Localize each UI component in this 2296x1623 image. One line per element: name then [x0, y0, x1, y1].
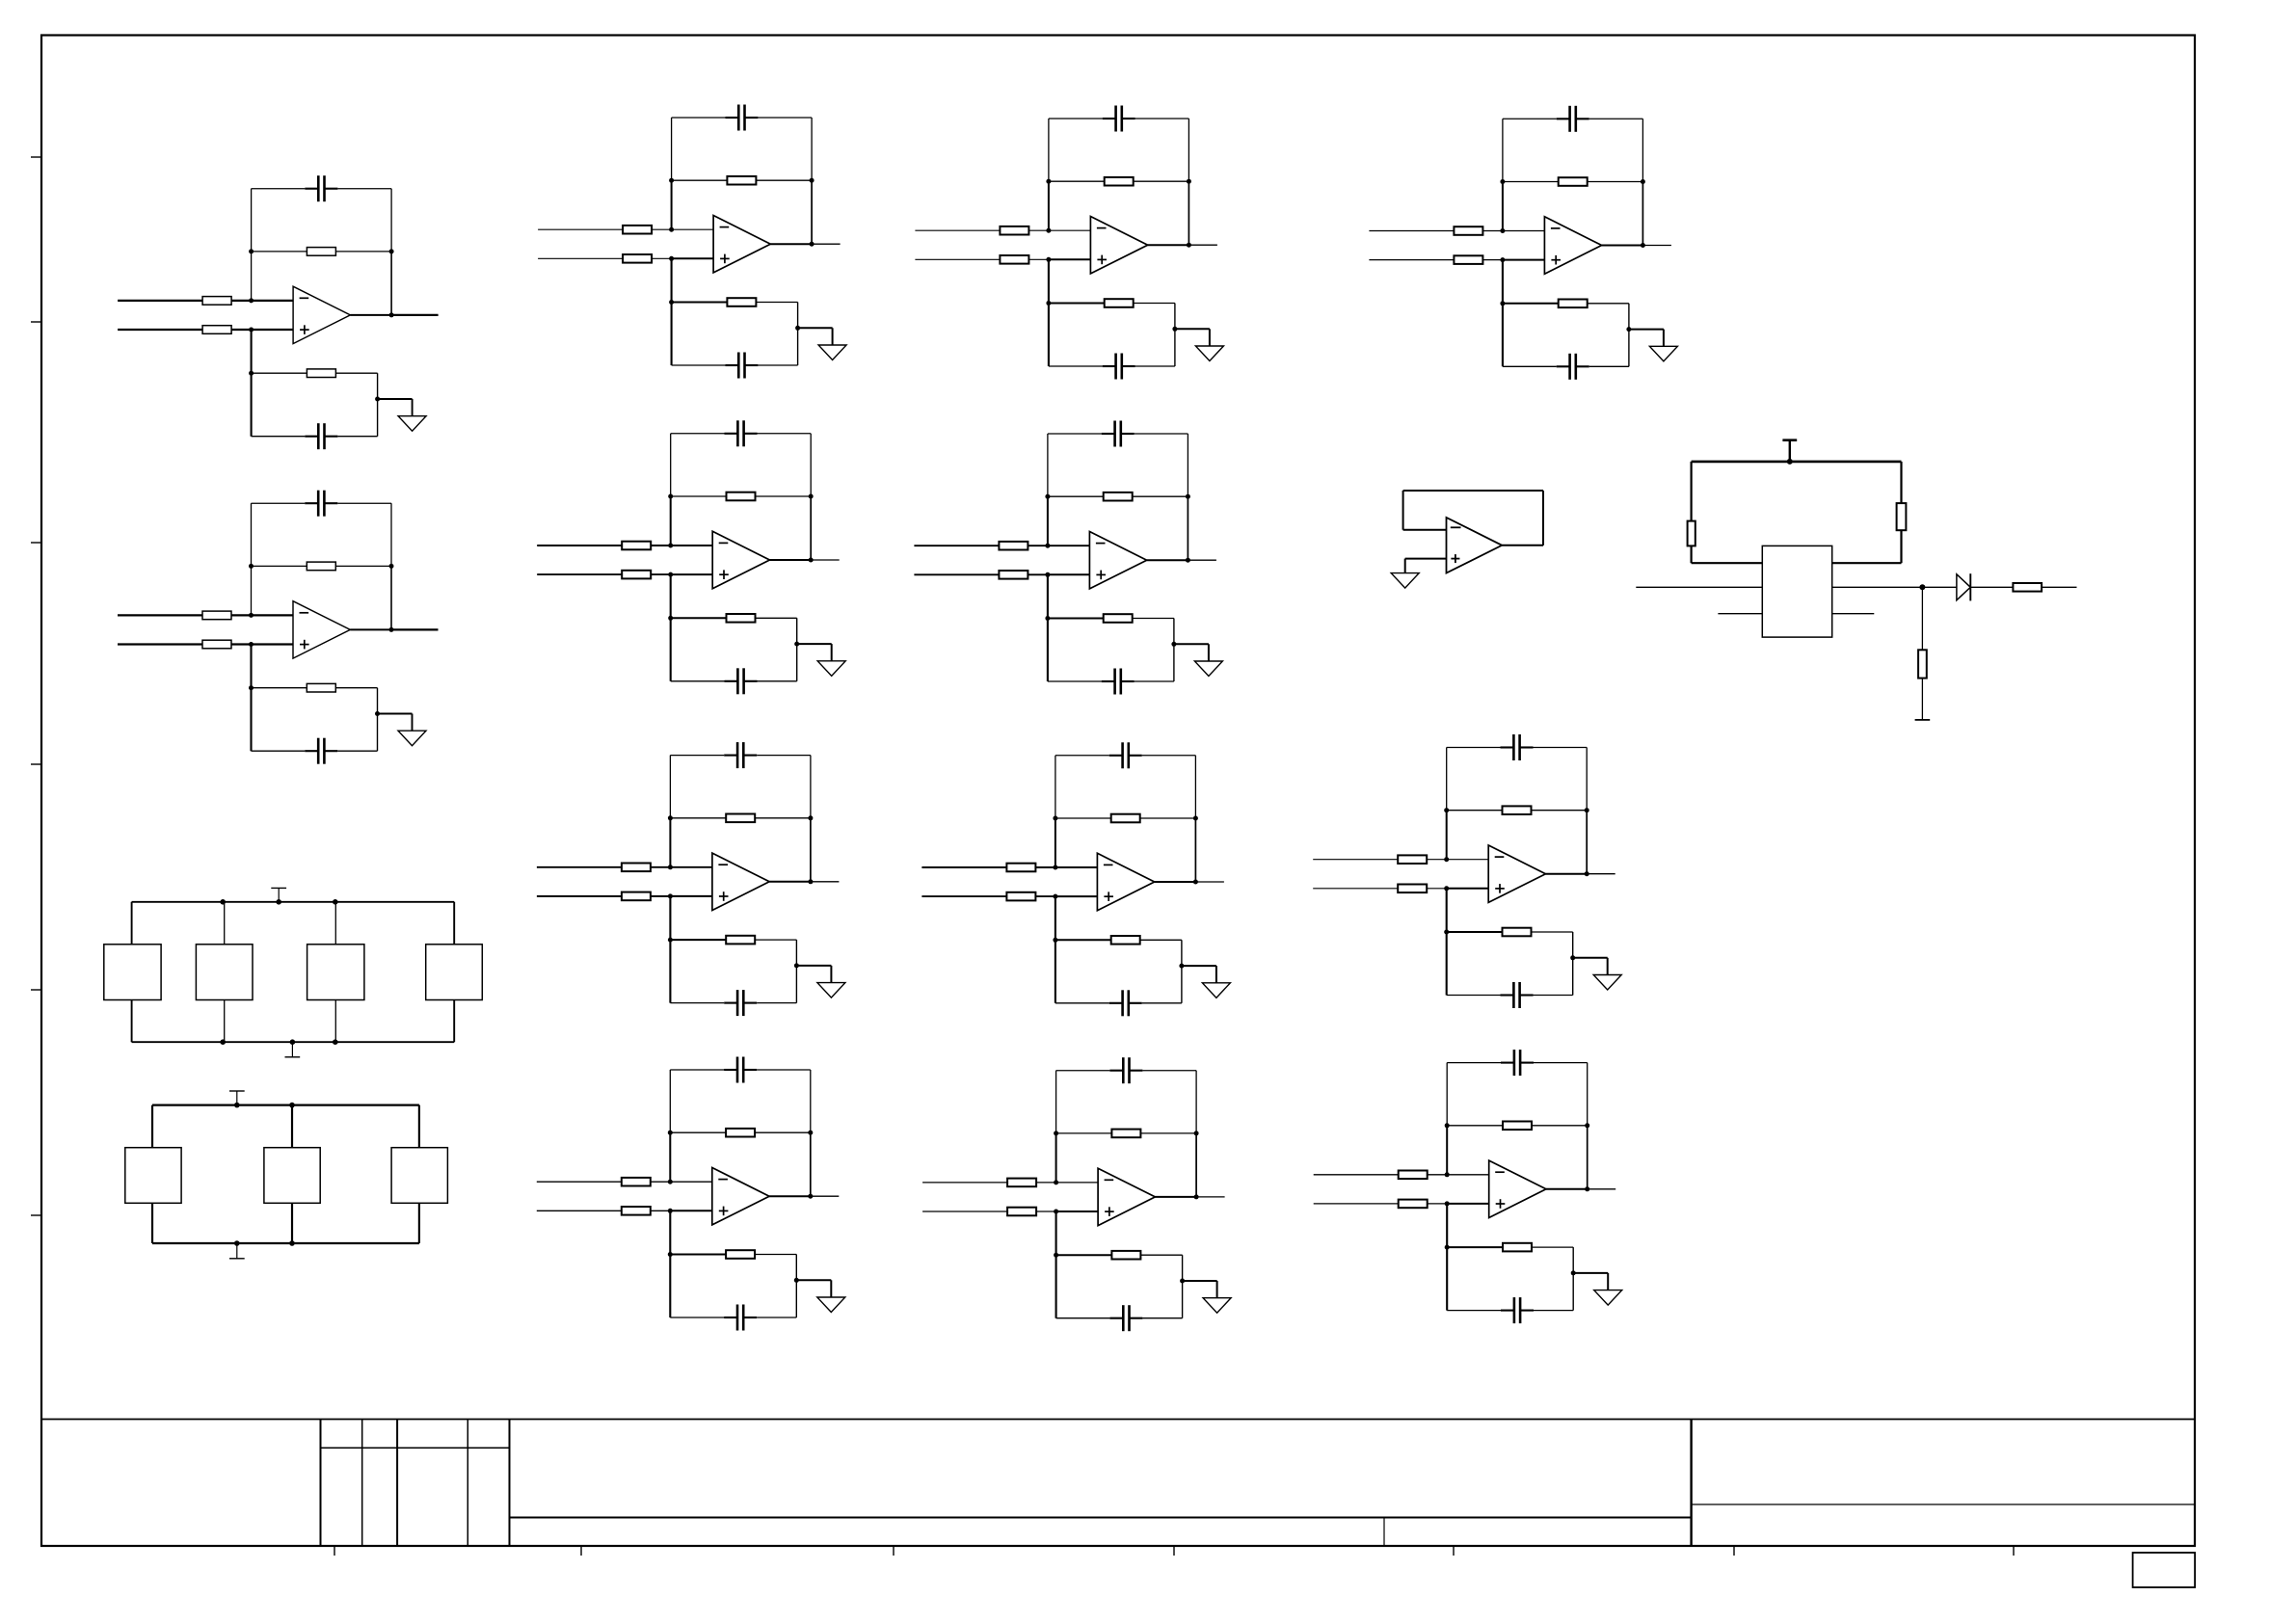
node pack1 bottom bus: [220, 1039, 226, 1045]
node U2 non-inverting input: [249, 642, 254, 647]
resistor U1 non-inverting input: [202, 326, 231, 334]
wire U1 rc top: [252, 372, 307, 374]
resistor U10 inverting input: [1007, 1179, 1036, 1187]
resistor U12 feedback: [1503, 806, 1532, 814]
op-amp U13: [1489, 1160, 1546, 1217]
wire U5 feedback top: [670, 755, 724, 757]
node U7 feedback left: [1046, 179, 1051, 184]
resistor U5 feedback: [726, 814, 755, 823]
wire U4 ground stub: [797, 643, 832, 645]
capacitor U3 feedback: [725, 117, 738, 119]
capacitor U13 feedback: [1501, 1062, 1514, 1064]
ground U3: [818, 345, 846, 360]
node U3 ground stub: [795, 326, 800, 331]
node U3 feedback right: [810, 178, 814, 183]
ground U14: [1391, 573, 1419, 589]
node U2 feedback left: [249, 564, 254, 569]
wire U14 feedback loop: [1502, 545, 1543, 546]
node U9 non-inverting input: [1053, 894, 1057, 899]
wire U9 feedback top: [1055, 755, 1109, 757]
node U4 output: [809, 558, 814, 563]
wire pack1 cell3 stubs: [334, 902, 336, 945]
diode D1: [1957, 574, 1970, 600]
wire U2 ground-leg vertical: [250, 645, 252, 752]
wire U9 ground-leg vertical: [1055, 896, 1056, 1003]
wire U13 feedback resistor row: [1447, 1125, 1588, 1127]
resistor U2 feedback: [307, 562, 335, 571]
wire U4 feedback resistor row: [671, 495, 812, 497]
capacitor U7 ground network: [1103, 365, 1116, 367]
capacitor U8 ground network: [1102, 680, 1115, 682]
wire U10 ground stub: [1183, 1280, 1217, 1282]
wire U10 feedback resistor row: [1056, 1132, 1197, 1134]
wire U11 inverting input: [1369, 230, 1503, 232]
node U5 inverting input: [668, 865, 673, 869]
wire U3 ground-leg vertical: [671, 258, 673, 365]
resistor U3 inverting input: [623, 226, 652, 234]
wire U2 output: [350, 628, 391, 630]
wire U13 ground stub: [1573, 1272, 1608, 1274]
resistor U13 ground network: [1503, 1243, 1532, 1252]
wire U11 ground-leg vertical: [1502, 260, 1504, 367]
wire U2 inverting input: [118, 614, 252, 616]
wire pack1 top bus: [132, 901, 455, 903]
block pack1 cell3: [307, 945, 364, 1000]
wire U1 inverting input: [118, 300, 252, 302]
power symbol VR1: [1789, 440, 1791, 462]
wire U3 rc top: [672, 302, 728, 304]
capacitor U1 feedback: [305, 188, 318, 190]
node U1 rc top left: [249, 371, 254, 376]
wire U12 inverting input: [1313, 859, 1447, 861]
resistor U10 feedback: [1111, 1130, 1140, 1138]
wire U1 feedback left vertical: [251, 189, 253, 252]
wire U7 rc top: [1049, 303, 1105, 305]
op-amp U5: [712, 853, 769, 910]
node U5 non-inverting input: [668, 893, 673, 898]
resistor U3 feedback: [727, 176, 756, 185]
node U5 output: [808, 879, 813, 884]
resistor U2 ground network: [307, 683, 335, 692]
capacitor U8 feedback: [1102, 433, 1115, 435]
wire U6 feedback left vertical: [669, 1070, 671, 1132]
op-amp U2: [293, 601, 350, 658]
wire U10 rc top: [1056, 1254, 1112, 1256]
wire U7 inverting input: [915, 229, 1049, 231]
wire U4 output: [770, 559, 812, 561]
wire U6 ground stub: [796, 1279, 831, 1281]
wire U4 non-inverting input: [537, 573, 671, 575]
node U3 rc top left: [669, 300, 674, 305]
wire U7 output: [1148, 244, 1189, 246]
regulator VR1: [1762, 545, 1831, 637]
wire below R_div: [1921, 678, 1923, 720]
wire U12 ground stub: [1573, 957, 1608, 959]
ground U10: [1203, 1298, 1231, 1314]
node U8 ground stub: [1171, 642, 1176, 647]
wire U1 feedback resistor row: [252, 251, 392, 253]
wire VR1 input: [1636, 586, 1762, 588]
wire U11 feedback top: [1503, 118, 1557, 120]
resistor U11 feedback: [1559, 177, 1588, 186]
capacitor U11 feedback: [1557, 118, 1570, 120]
wire U5 inverting input: [537, 866, 671, 868]
node U1 inverting input: [249, 298, 254, 303]
title block right field line: [1692, 1503, 2195, 1505]
wire U12 feedback top: [1447, 747, 1501, 749]
wire U9 feedback left vertical: [1055, 756, 1056, 818]
block pack1 cell1: [104, 945, 161, 1000]
wire U7 feedback resistor row: [1049, 180, 1189, 182]
wire U1 ground-leg vertical: [251, 330, 253, 437]
title block divider: [1690, 1420, 1692, 1547]
resistor U6 ground network: [726, 1250, 755, 1259]
wire R_out right: [2042, 586, 2076, 588]
node U10 output: [1194, 1194, 1199, 1199]
node U4 ground stub: [794, 642, 799, 647]
wire U9 feedback resistor row: [1055, 817, 1196, 819]
node U6 inverting input: [668, 1180, 673, 1184]
wire U2 feedback top: [252, 502, 306, 504]
node pack1 top bus: [220, 899, 226, 905]
resistor U12 non-inverting input: [1398, 885, 1427, 893]
wire U10 feedback left vertical: [1055, 1071, 1057, 1133]
node U3 non-inverting input: [669, 256, 674, 261]
wire U4 feedback top: [671, 433, 725, 435]
wire U7 rc right vertical: [1174, 304, 1176, 367]
node U9 ground stub: [1179, 964, 1184, 969]
wire U5 feedback right vertical: [810, 756, 812, 818]
wire U8 non-inverting input: [914, 573, 1048, 575]
node U1 non-inverting input: [249, 328, 254, 333]
title block table verticals: [320, 1420, 322, 1547]
node U3 inverting input: [669, 227, 674, 232]
wire U9 rc top: [1055, 939, 1111, 941]
capacitor U12 ground network: [1501, 994, 1514, 996]
wire U8 inverting input: [914, 545, 1048, 546]
node U1 feedback left: [249, 249, 254, 253]
wire U4 inverting input: [537, 545, 671, 546]
wire U12 feedback left vertical: [1446, 748, 1448, 811]
op-amp U10: [1098, 1168, 1155, 1225]
resistor U7 ground network: [1105, 299, 1134, 307]
resistor U11 non-inverting input: [1454, 255, 1482, 264]
wire U9 ground stub: [1182, 965, 1216, 967]
wire U8 feedback resistor row: [1048, 495, 1188, 497]
ground U8: [1194, 661, 1222, 677]
wire U10 non-inverting input: [922, 1211, 1056, 1212]
ground U12: [1593, 975, 1621, 991]
wire U5 non-inverting input: [537, 895, 671, 897]
resistor U8 non-inverting input: [999, 571, 1028, 579]
wire U2 feedback left vertical: [251, 503, 253, 566]
wire U12 non-inverting input: [1313, 888, 1447, 890]
node U3 feedback left: [669, 178, 674, 183]
node U3 output: [810, 242, 814, 247]
resistor U7 non-inverting input: [1000, 255, 1028, 264]
wire U11 ground stub: [1629, 329, 1664, 331]
wire U13 ground-leg vertical: [1446, 1204, 1448, 1311]
resistor U4 non-inverting input: [622, 571, 651, 579]
node U8 feedback left: [1045, 494, 1050, 499]
node U13 inverting input: [1445, 1172, 1450, 1177]
block pack2 cell3: [391, 1148, 447, 1204]
resistor U11 inverting input: [1454, 226, 1482, 235]
capacitor U2 feedback: [305, 502, 318, 504]
node U11 non-inverting input: [1500, 257, 1505, 262]
node pack2 bottom bus: [234, 1240, 240, 1246]
resistor U2 inverting input: [202, 611, 231, 620]
node U7 inverting input: [1046, 228, 1051, 233]
capacitor U10 feedback: [1109, 1070, 1123, 1072]
node U2 rc top left: [249, 685, 254, 690]
node U9 inverting input: [1053, 865, 1057, 870]
wire U2 feedback right vertical: [390, 503, 392, 566]
wire U2 ground stub: [378, 713, 413, 715]
wire U7 non-inverting input: [915, 258, 1049, 260]
node U8 inverting input: [1045, 544, 1050, 548]
node U6 feedback right: [808, 1131, 813, 1135]
resistor U12 inverting input: [1398, 855, 1427, 864]
wire VR1 left branch: [1690, 462, 1692, 521]
node U4 rc top left: [668, 616, 673, 621]
wire U3 feedback right vertical: [811, 118, 813, 180]
block pack1 cell4: [426, 945, 483, 1000]
wire U1 output: [350, 314, 391, 316]
power symbol pack1: [278, 888, 280, 901]
wire U5 rc top: [670, 939, 726, 941]
resistor U4 inverting input: [622, 542, 651, 550]
node U13 feedback left: [1445, 1123, 1450, 1128]
node U10 feedback left: [1054, 1131, 1058, 1135]
capacitor U6 ground network: [724, 1317, 737, 1318]
ground U9: [1202, 983, 1230, 998]
resistor U1 feedback: [307, 248, 335, 256]
wire U3 feedback left vertical: [671, 118, 673, 180]
wire U6 rc bottom: [670, 1317, 724, 1318]
wire U6 rc right vertical: [795, 1255, 797, 1318]
resistor U12 ground network: [1503, 928, 1532, 937]
op-amp U11: [1544, 217, 1601, 274]
wire U9 rc right vertical: [1181, 940, 1183, 1003]
node VR1 top rail: [1787, 459, 1793, 465]
resistor U7 feedback: [1105, 177, 1134, 186]
title block middle field line: [510, 1517, 1692, 1519]
capacitor U7 feedback: [1103, 118, 1116, 120]
resistor U3 ground network: [727, 298, 756, 306]
resistor U4 feedback: [727, 492, 756, 501]
node U9 feedback right: [1193, 816, 1198, 821]
wire U8 feedback left vertical: [1047, 434, 1049, 496]
wire U8 rc bottom: [1048, 680, 1102, 682]
frame tick marks bottom edge: [334, 1546, 335, 1556]
ground U1: [398, 416, 426, 432]
node U11 inverting input: [1500, 228, 1505, 233]
node U7 output: [1187, 243, 1191, 248]
wire U11 feedback right vertical: [1642, 119, 1643, 181]
node U12 rc top left: [1444, 930, 1449, 935]
wire U11 non-inverting input: [1369, 259, 1503, 261]
resistor U9 feedback: [1111, 814, 1140, 823]
resistor R_div: [1918, 650, 1927, 678]
wire U3 feedback top: [672, 117, 726, 119]
wire U6 rc top: [670, 1254, 726, 1256]
wire U2 rc bottom: [252, 750, 306, 752]
wire U3 feedback resistor row: [672, 179, 813, 181]
resistor U10 non-inverting input: [1007, 1208, 1036, 1216]
wire U8 rc top: [1048, 618, 1104, 620]
wire U4 feedback right vertical: [810, 434, 812, 496]
node U8 feedback right: [1186, 494, 1190, 499]
block pack2 cell2: [264, 1148, 320, 1204]
wire U8 feedback top: [1048, 433, 1102, 435]
ground U11: [1649, 346, 1677, 361]
title block table mid line: [321, 1447, 510, 1449]
capacitor U3 ground network: [725, 364, 738, 366]
node U11 ground stub: [1626, 327, 1631, 332]
node U12 ground stub: [1570, 955, 1575, 960]
node U5 feedback right: [808, 815, 813, 820]
node U2 feedback right: [389, 564, 394, 569]
title block middle field stub: [1383, 1518, 1385, 1547]
node U12 inverting input: [1444, 857, 1449, 862]
node U2 ground stub: [375, 711, 380, 716]
wire U8 feedback right vertical: [1187, 434, 1188, 496]
node U4 non-inverting input: [668, 572, 673, 577]
resistor U3 non-inverting input: [623, 254, 652, 263]
resistor VR1 right: [1897, 503, 1907, 530]
node U7 non-inverting input: [1046, 257, 1051, 262]
node U5 feedback left: [668, 815, 673, 820]
wire U4 rc top: [671, 617, 727, 619]
node U13 feedback right: [1585, 1123, 1589, 1128]
capacitor U9 feedback: [1109, 755, 1123, 757]
wire U5 rc bottom: [670, 1002, 724, 1004]
wire U7 feedback right vertical: [1188, 119, 1189, 181]
capacitor U11 ground network: [1557, 365, 1570, 367]
wire U11 rc bottom: [1503, 365, 1557, 367]
wire U10 inverting input: [922, 1182, 1056, 1184]
wire U9 feedback right vertical: [1194, 756, 1196, 818]
frame tick marks left edge: [31, 156, 42, 158]
node U6 rc top left: [668, 1252, 673, 1257]
wire U13 rc bottom: [1447, 1310, 1501, 1312]
wire U6 ground-leg vertical: [669, 1211, 671, 1317]
power symbol pack2: [236, 1091, 238, 1105]
wire U12 output: [1546, 873, 1588, 875]
resistor U1 ground network: [307, 369, 335, 378]
wire U1 ground stub: [378, 398, 413, 400]
wire U13 rc right vertical: [1572, 1247, 1574, 1311]
resistor U2 non-inverting input: [202, 640, 231, 649]
node U8 output: [1186, 558, 1190, 563]
wire U12 ground-leg vertical: [1446, 889, 1448, 996]
wire U3 inverting input: [538, 228, 672, 230]
wire U5 ground-leg vertical: [669, 896, 671, 1003]
op-amp U1: [293, 286, 350, 343]
wire U3 rc right vertical: [797, 303, 799, 366]
op-amp U3: [713, 216, 770, 273]
resistor U13 feedback: [1503, 1122, 1532, 1131]
node U7 rc top left: [1046, 301, 1051, 306]
node U5 rc top left: [668, 938, 673, 943]
node U1 feedback right: [389, 249, 394, 253]
node U10 non-inverting input: [1054, 1210, 1058, 1214]
resistor U5 non-inverting input: [622, 892, 651, 901]
node VR1 output: [1919, 584, 1925, 590]
ground U2: [398, 731, 426, 746]
node U10 ground stub: [1180, 1279, 1185, 1284]
op-amp U12: [1488, 845, 1545, 902]
wire U11 feedback resistor row: [1503, 181, 1643, 183]
resistor U8 ground network: [1104, 614, 1133, 623]
resistor U13 non-inverting input: [1399, 1200, 1428, 1209]
node U11 feedback right: [1641, 179, 1645, 184]
ground U13: [1594, 1290, 1622, 1306]
wire U8 ground-leg vertical: [1047, 574, 1049, 681]
wire U9 output: [1155, 881, 1196, 883]
node U2 output: [389, 627, 394, 632]
wire U13 feedback left vertical: [1446, 1063, 1448, 1126]
capacitor U9 ground network: [1109, 1002, 1123, 1004]
node U4 feedback right: [809, 494, 814, 499]
resistor U13 inverting input: [1399, 1171, 1428, 1180]
node U12 output: [1585, 871, 1589, 876]
capacitor U2 ground network: [305, 750, 318, 752]
wire VR1 lower pins: [1718, 613, 1762, 615]
node U4 feedback left: [668, 494, 673, 499]
wire pack1 bottom bus: [132, 1041, 455, 1043]
node U10 inverting input: [1054, 1180, 1058, 1184]
node U11 feedback left: [1500, 179, 1505, 184]
wire U5 feedback resistor row: [670, 817, 811, 819]
resistor U11 ground network: [1559, 300, 1588, 308]
capacitor U4 ground network: [725, 680, 738, 682]
wire U1 feedback right vertical: [390, 189, 392, 252]
wire U13 inverting input: [1314, 1174, 1448, 1176]
wire U13 rc top: [1447, 1246, 1503, 1248]
resistor U9 non-inverting input: [1006, 892, 1035, 901]
resistor U7 inverting input: [1000, 226, 1028, 235]
node U7 feedback right: [1187, 179, 1191, 184]
wire pack2 bottom bus: [152, 1242, 419, 1244]
op-amp U6: [712, 1168, 769, 1225]
wire U4 ground-leg vertical: [670, 574, 672, 681]
resistor R_out: [2013, 583, 2042, 592]
wire U7 ground-leg vertical: [1048, 259, 1050, 366]
wire VR1 output: [1832, 586, 1957, 588]
node U13 non-inverting input: [1445, 1201, 1450, 1206]
resistor U4 ground network: [727, 614, 756, 623]
wire U13 non-inverting input: [1314, 1203, 1448, 1205]
revision box below frame: [2133, 1553, 2196, 1587]
wire pack1 right vertical: [453, 902, 455, 1042]
wire U3 ground stub: [798, 327, 833, 329]
wire U7 ground stub: [1175, 328, 1210, 330]
node U13 ground stub: [1571, 1270, 1576, 1275]
wire U8 output: [1147, 559, 1188, 561]
op-amp U9: [1097, 853, 1154, 910]
node U1 ground stub: [375, 397, 380, 402]
wire D1 to resistor: [1970, 586, 2013, 588]
wire U12 feedback right vertical: [1586, 748, 1588, 811]
op-amp U4: [712, 531, 769, 588]
wire pack2 top bus: [152, 1104, 419, 1105]
resistor U5 ground network: [726, 936, 755, 945]
wire U12 rc right vertical: [1572, 932, 1574, 996]
wire U10 rc bottom: [1056, 1317, 1110, 1319]
resistor U10 ground network: [1111, 1251, 1140, 1260]
